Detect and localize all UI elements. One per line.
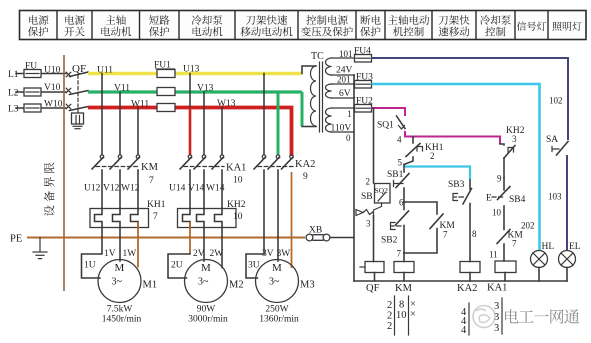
svg-text:KA2: KA2 xyxy=(295,159,315,170)
svg-text:L3: L3 xyxy=(8,105,19,115)
svg-text:10: 10 xyxy=(233,212,243,222)
wire W13 drop to KA1 xyxy=(221,108,223,155)
wire to QF coil xyxy=(373,216,375,262)
wire L1 incoming xyxy=(16,73,66,75)
wire V11 drop to KM xyxy=(119,92,121,155)
TC core xyxy=(319,62,321,132)
svg-text:201: 201 xyxy=(337,75,351,85)
svg-text:W11: W11 xyxy=(131,100,149,110)
svg-text:EL: EL xyxy=(569,242,581,252)
svg-text:KA1: KA1 xyxy=(487,283,507,294)
motor M3 xyxy=(256,260,299,303)
svg-text:M: M xyxy=(272,262,282,274)
svg-text:10: 10 xyxy=(396,310,407,321)
button SB (wedge + zigzag) xyxy=(374,203,382,210)
svg-text:7: 7 xyxy=(153,212,158,222)
svg-text:110V: 110V xyxy=(331,124,352,134)
svg-text:7: 7 xyxy=(443,230,448,240)
svg-text:V12: V12 xyxy=(103,184,120,194)
svg-text:3V: 3V xyxy=(262,249,274,259)
svg-text:2U: 2U xyxy=(171,261,183,271)
svg-text:E: E xyxy=(486,194,492,204)
PE rail xyxy=(27,237,305,239)
svg-text:1U: 1U xyxy=(84,261,96,271)
svg-text:7: 7 xyxy=(397,249,402,259)
position switch SQ2 in box xyxy=(375,184,391,204)
svg-text:3~: 3~ xyxy=(112,277,123,288)
wire 5 cyan to SB3 xyxy=(404,167,470,181)
svg-text:2: 2 xyxy=(387,311,392,322)
svg-text:202: 202 xyxy=(521,221,535,231)
svg-text:250W: 250W xyxy=(265,305,288,315)
svg-text:2: 2 xyxy=(366,177,371,187)
contactor KM main contacts xyxy=(100,155,104,159)
boundary label 设备界限 xyxy=(44,162,55,216)
svg-text:V11: V11 xyxy=(114,84,130,94)
TC primary winding xyxy=(311,66,317,126)
coil KA1 xyxy=(495,261,516,273)
wire yellow to TC primary xyxy=(302,66,316,74)
svg-text:3U: 3U xyxy=(248,261,260,271)
svg-text:6V: 6V xyxy=(339,89,351,99)
wire 1W xyxy=(137,222,139,268)
svg-text:3~: 3~ xyxy=(269,277,280,288)
interlock contact KM xyxy=(497,230,510,244)
svg-text:2W: 2W xyxy=(210,249,224,259)
svg-text:3: 3 xyxy=(494,301,499,312)
motor M2 xyxy=(185,260,228,303)
control common 0 rail xyxy=(353,75,355,281)
svg-text:8: 8 xyxy=(472,229,477,239)
svg-text:V13: V13 xyxy=(197,84,214,94)
svg-text:3: 3 xyxy=(494,323,499,334)
svg-text:KA2: KA2 xyxy=(457,283,477,294)
wires KA1 to KH2 xyxy=(189,170,191,209)
wire 201 cyan HL feed xyxy=(372,84,540,251)
svg-text:L2: L2 xyxy=(8,89,19,99)
coil QF (breaker release) xyxy=(365,262,384,273)
svg-text:SB: SB xyxy=(361,192,373,202)
secondary stub wires xyxy=(332,57,355,59)
svg-text:4: 4 xyxy=(397,135,402,145)
self-holding contact KM xyxy=(404,202,437,214)
wire green to TC primary xyxy=(301,92,304,126)
svg-text:KA1: KA1 xyxy=(226,163,246,174)
wires KA2 to M3 xyxy=(263,170,265,254)
wire 101 navy EL feed xyxy=(372,58,569,140)
contactor KA1 main contacts xyxy=(188,155,192,159)
svg-text:M: M xyxy=(201,262,211,274)
svg-text:102: 102 xyxy=(549,96,563,106)
svg-text:KM: KM xyxy=(141,162,159,173)
svg-text:M3: M3 xyxy=(300,280,315,291)
svg-text:SQ2: SQ2 xyxy=(375,186,389,195)
bus U11 yellow xyxy=(88,72,302,75)
svg-text:1W: 1W xyxy=(123,249,137,259)
svg-text:2: 2 xyxy=(387,300,392,311)
svg-text:M: M xyxy=(115,262,125,274)
TC 6V winding xyxy=(326,84,332,98)
coil KM xyxy=(403,253,405,262)
svg-text:SQ1: SQ1 xyxy=(377,121,394,131)
watermark logo xyxy=(473,306,495,328)
wire 2 down from FU2 output xyxy=(373,108,375,183)
svg-text:W10: W10 xyxy=(44,100,63,110)
svg-text:KH1: KH1 xyxy=(147,200,166,210)
svg-text:HL: HL xyxy=(542,242,555,252)
motor M1 xyxy=(98,260,141,303)
svg-text:×: × xyxy=(410,309,416,320)
svg-text:3000r/min: 3000r/min xyxy=(188,315,228,325)
svg-text:90W: 90W xyxy=(197,305,216,315)
wire U13 drop to KA1 (red below W11 bus) xyxy=(189,74,191,108)
svg-text:KH2: KH2 xyxy=(227,200,246,210)
wire 2W xyxy=(221,228,223,268)
svg-text:10: 10 xyxy=(233,176,243,186)
svg-text:U14: U14 xyxy=(169,184,186,194)
bus V11 green xyxy=(88,90,302,93)
svg-text:FU: FU xyxy=(25,62,37,72)
svg-text:2: 2 xyxy=(430,151,435,161)
svg-text:M1: M1 xyxy=(143,280,158,291)
TC 24V winding xyxy=(326,58,332,75)
wire 2U xyxy=(189,222,191,254)
svg-text:W12: W12 xyxy=(121,184,140,194)
contactor KA2 main contacts xyxy=(262,155,266,159)
wire W11 drop to KM xyxy=(137,108,139,155)
wire 1 magenta to SQ1 xyxy=(372,108,406,116)
ground symbol xyxy=(39,238,41,252)
svg-text:101: 101 xyxy=(339,49,353,59)
svg-text:2: 2 xyxy=(387,321,392,332)
wire 1V xyxy=(119,228,121,262)
header function-zone table xyxy=(20,11,587,40)
start button SB2 xyxy=(391,223,402,230)
svg-text:3: 3 xyxy=(366,219,371,229)
svg-text:7: 7 xyxy=(149,176,154,186)
coil KA2 xyxy=(460,262,480,273)
wire drop to KA2 pole2 green xyxy=(277,92,280,155)
svg-text:W13: W13 xyxy=(217,99,236,109)
wire V13 drop to KA1 xyxy=(203,92,205,155)
TC 110V winding xyxy=(326,108,332,132)
svg-text:5: 5 xyxy=(398,158,403,168)
svg-text:3W: 3W xyxy=(277,249,291,259)
svg-text:4: 4 xyxy=(461,325,467,336)
svg-text:11: 11 xyxy=(489,250,498,260)
svg-text:U10: U10 xyxy=(44,66,61,76)
svg-text:1450r/min: 1450r/min xyxy=(102,315,142,325)
watermark text xyxy=(505,309,518,323)
wire L2 incoming xyxy=(16,91,66,93)
svg-text:V10: V10 xyxy=(44,83,61,93)
svg-text:7: 7 xyxy=(512,239,517,249)
svg-text:U13: U13 xyxy=(183,65,200,75)
svg-text:2V: 2V xyxy=(193,249,205,259)
svg-text:3: 3 xyxy=(512,134,517,144)
svg-text:9: 9 xyxy=(303,172,308,182)
svg-text:SB3: SB3 xyxy=(448,180,465,190)
svg-text:TC: TC xyxy=(311,51,324,62)
svg-text:10: 10 xyxy=(492,208,502,218)
fuse FU (3 poles) xyxy=(24,70,41,78)
bus W11 red (turns down to KA2) xyxy=(88,108,292,157)
svg-text:8: 8 xyxy=(399,300,404,311)
svg-text:QF: QF xyxy=(366,283,380,294)
wire 1U xyxy=(82,228,103,279)
svg-text:SB1: SB1 xyxy=(387,170,404,180)
svg-text:SA: SA xyxy=(546,135,558,145)
thermal relay KH2 heaters xyxy=(178,209,237,228)
svg-text:1: 1 xyxy=(347,109,352,119)
wire 2V xyxy=(203,228,205,262)
svg-text:L1: L1 xyxy=(8,70,19,80)
svg-text:1360r/min: 1360r/min xyxy=(259,315,299,325)
svg-text:SB2: SB2 xyxy=(381,236,398,246)
svg-text:103: 103 xyxy=(548,192,562,202)
svg-text:U12: U12 xyxy=(84,184,101,194)
svg-text:SB4: SB4 xyxy=(509,195,526,205)
control 0 bottom rail xyxy=(354,280,567,282)
wire 4 magenta SQ1 to KH2 xyxy=(405,131,500,144)
svg-text:3~: 3~ xyxy=(198,277,209,288)
wire U11 drop to KM xyxy=(101,74,103,155)
svg-text:M2: M2 xyxy=(229,280,244,291)
svg-text:KM: KM xyxy=(395,283,413,294)
wire L3 incoming xyxy=(16,107,66,109)
svg-text:1V: 1V xyxy=(104,249,116,259)
QF trip unit xyxy=(72,113,84,124)
svg-text:0: 0 xyxy=(346,133,351,143)
wires KM to KH1 xyxy=(101,170,103,209)
thermal contact KH1 xyxy=(412,137,414,144)
svg-text:9: 9 xyxy=(497,174,502,184)
svg-text:PE: PE xyxy=(10,234,22,245)
svg-text:7.5kW: 7.5kW xyxy=(107,305,133,315)
svg-text:U11: U11 xyxy=(97,66,113,76)
thermal relay KH1 heaters xyxy=(90,209,149,228)
wire drop to KA2 pole1 xyxy=(263,74,265,155)
equipment boundary line xyxy=(63,55,65,291)
